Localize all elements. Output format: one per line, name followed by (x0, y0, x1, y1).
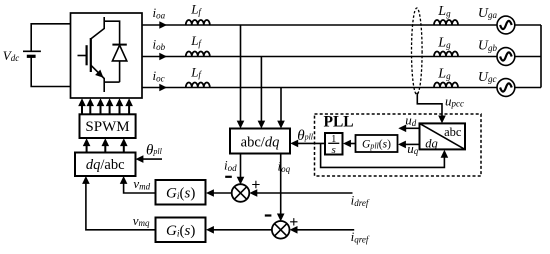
wire vmq (86, 183, 156, 230)
svg-text:abc/dq: abc/dq (241, 135, 280, 151)
arrowhead ioq (277, 214, 285, 222)
sign minus at junction2 (265, 214, 272, 216)
Gpll(s) box (356, 135, 398, 152)
inductor Lf phase c (186, 83, 210, 88)
svg-text:vmd: vmd (133, 176, 150, 191)
battery Vdc short plate (27, 55, 36, 58)
DC source Vdc wire top (31, 24, 70, 52)
diode D1 cathode bar (112, 44, 126, 46)
inductor Lf phase b (186, 52, 210, 57)
arrowheads SPWM to inverter (78, 98, 133, 106)
svg-text:Lg: Lg (437, 4, 451, 19)
arrowhead idref (249, 189, 257, 197)
svg-text:Vdc: Vdc (3, 48, 19, 63)
svg-text:ioa: ioa (153, 5, 166, 20)
svg-text:idref: idref (351, 193, 370, 208)
wire Gpll to integrator (350, 143, 355, 145)
PLL abc-dq transform box (420, 123, 466, 149)
diode D1 triangle (112, 45, 126, 61)
inductor Lg phase a (434, 20, 458, 25)
svg-text:Gpll(s): Gpll(s) (362, 138, 391, 150)
arrowhead ud (398, 125, 406, 133)
summing junction 1 (232, 184, 250, 202)
wire phase b right (515, 56, 541, 58)
transistor Q1 body bar (90, 38, 92, 72)
wire junction1 to Gi1 (213, 192, 232, 194)
AC source Ugc circle (497, 79, 515, 97)
wire iod (240, 154, 242, 178)
svg-text:upcc: upcc (445, 93, 464, 108)
svg-text:dq: dq (425, 136, 438, 150)
PLL dashed box (315, 114, 482, 176)
wire tap b to abc/dq (260, 57, 262, 122)
Gi(s) box 2 (156, 218, 206, 243)
inverter box (71, 13, 143, 98)
wire phase a right (515, 24, 541, 26)
Gi(s) box 1 (156, 180, 206, 205)
svg-text:uq: uq (407, 141, 419, 156)
svg-text:vmq: vmq (133, 213, 150, 228)
svg-text:dq/abc: dq/abc (86, 157, 125, 173)
svg-text:Lg: Lg (437, 36, 451, 51)
PLL abc-dq transform diagonal (420, 123, 466, 149)
svg-text:Lf: Lf (190, 64, 202, 79)
AC source Uga circle (497, 16, 515, 34)
wire ud stub (406, 127, 420, 129)
arrowhead vmd (120, 176, 128, 184)
svg-text:iqref: iqref (351, 229, 370, 244)
arrowhead tap c (277, 121, 285, 129)
DC source Vdc wire bottom (31, 56, 70, 86)
svg-text:Ugb: Ugb (478, 38, 498, 53)
svg-text:s: s (332, 144, 336, 156)
wire uq (405, 143, 420, 145)
wire iqref (297, 229, 355, 231)
AC source Ugc sine (500, 83, 512, 91)
wire phase b (142, 56, 497, 58)
arrowhead theta_pll stub (136, 155, 144, 163)
wire tap c to abc/dq (280, 88, 282, 122)
sign plus at junction1 (252, 181, 259, 188)
dq/abc box (75, 153, 136, 177)
wire ioq (280, 154, 282, 215)
svg-text:Lf: Lf (190, 2, 202, 17)
wire phase c right (515, 87, 541, 89)
sign minus at junction1 (225, 176, 232, 178)
arrowhead upcc (438, 116, 446, 124)
svg-text:Gi(s): Gi(s) (166, 223, 195, 240)
arrowheads dq/abc to SPWM (83, 138, 128, 146)
svg-text:ioc: ioc (153, 68, 165, 83)
transistor Q1 collector (91, 17, 104, 39)
transistor Q1 emitter arrow (95, 70, 103, 78)
wire phase c (142, 87, 497, 89)
AC source Ugb sine (500, 52, 512, 60)
svg-text:iod: iod (224, 157, 237, 172)
svg-text:Uga: Uga (478, 6, 498, 21)
svg-text:iob: iob (153, 37, 166, 52)
wire phase a (142, 24, 497, 26)
arrowhead phase c (159, 84, 167, 92)
arrows dq/abc to SPWM (87, 145, 124, 153)
wire theta_pll stub to dq/abc (143, 158, 163, 160)
svg-text:ioq: ioq (278, 158, 291, 173)
arrowhead uq (398, 141, 406, 149)
svg-text:θpll: θpll (297, 128, 314, 144)
arrowhead theta_pll into abc/dq (290, 140, 298, 148)
AC source Uga sine (500, 21, 512, 29)
wire junction2 to Gi2 (213, 229, 272, 231)
wire theta_pll from 1/s to abc/dq (298, 142, 326, 144)
SPWM box (80, 114, 136, 138)
battery Vdc long plate (23, 50, 41, 52)
svg-text:ud: ud (405, 113, 417, 128)
svg-text:Gi(s): Gi(s) (166, 186, 195, 203)
svg-text:Lf: Lf (190, 33, 202, 48)
inductor Lg phase c (434, 83, 458, 88)
integrator fraction bar (328, 142, 339, 144)
abc/dq box (230, 129, 290, 154)
wire tap a to abc/dq (240, 25, 242, 122)
transistor Q1 gate bar (85, 45, 87, 65)
transistor Q1 gate lead (78, 55, 86, 57)
svg-text:Lg: Lg (437, 67, 451, 82)
arrowhead iqref (290, 226, 298, 234)
wire grid bus (540, 25, 542, 88)
summing junction 2 (272, 221, 290, 239)
arrowhead iod (237, 177, 245, 185)
arrowhead tap a (237, 121, 245, 129)
svg-text:abc: abc (444, 125, 462, 139)
diode D1 bottom lead (119, 61, 121, 82)
wire collector to diode top (104, 21, 119, 44)
arrowhead junction1 to Gi1 (206, 189, 214, 197)
inductor Lf phase a (186, 20, 210, 25)
svg-text:θpll: θpll (146, 142, 163, 158)
PCC measurement ellipse (412, 8, 423, 94)
arrows SPWM to inverter (82, 105, 129, 115)
arrowhead PLL feedback (441, 150, 449, 158)
wire vmd (124, 183, 156, 193)
wire PLL feedback (321, 143, 445, 167)
inductor Lg phase b (434, 52, 458, 57)
arrowhead Gpll to integrator (343, 140, 351, 148)
arrowhead phase a (159, 21, 167, 29)
wire idref (257, 192, 353, 194)
arrowhead phase b (159, 53, 167, 61)
svg-text:PLL: PLL (324, 114, 354, 131)
integrator 1/s box (325, 133, 343, 155)
arrowhead tap b (258, 121, 266, 129)
wire upcc (417, 93, 442, 117)
wire diode bottom to emitter (104, 81, 119, 83)
svg-text:Ugc: Ugc (478, 70, 497, 85)
arrowhead junction2 to Gi2 (206, 226, 214, 234)
AC source Ugb circle (497, 48, 515, 66)
transistor Q1 emitter (91, 65, 104, 92)
sign plus at junction2 (290, 218, 297, 225)
svg-text:SPWM: SPWM (85, 119, 129, 135)
arrowhead vmq (82, 176, 90, 184)
